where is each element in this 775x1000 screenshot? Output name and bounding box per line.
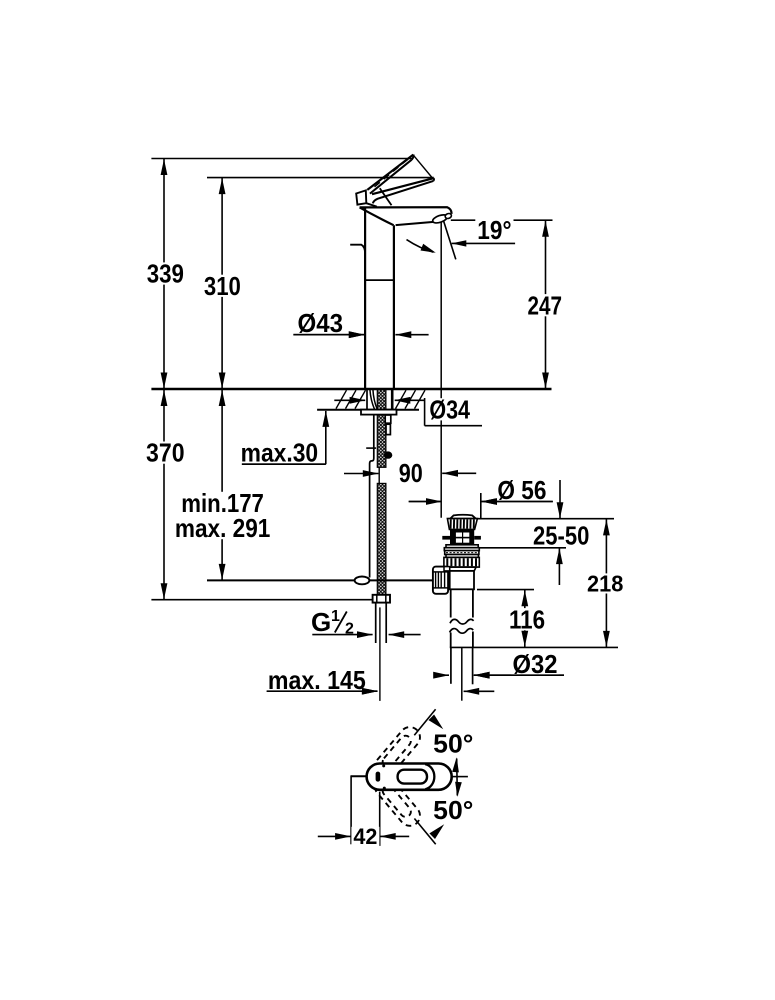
svg-text:50°: 50°	[433, 795, 473, 825]
svg-text:339: 339	[147, 259, 184, 289]
svg-text:90: 90	[399, 458, 423, 488]
svg-text:max. 291: max. 291	[175, 513, 271, 543]
svg-text:116: 116	[509, 604, 545, 634]
svg-text:310: 310	[204, 271, 241, 301]
svg-text:G: G	[311, 607, 331, 637]
svg-text:25-50: 25-50	[533, 520, 589, 550]
svg-text:247: 247	[528, 290, 563, 320]
svg-text:19°: 19°	[477, 215, 511, 245]
svg-text:50°: 50°	[433, 729, 473, 759]
svg-text:218: 218	[587, 570, 623, 596]
svg-text:42: 42	[353, 824, 377, 849]
svg-text:Ø43: Ø43	[298, 308, 344, 338]
svg-text:Ø34: Ø34	[429, 394, 470, 424]
svg-text:370: 370	[146, 438, 185, 468]
svg-text:1: 1	[331, 608, 340, 625]
svg-text:max.30: max.30	[241, 438, 319, 468]
svg-text:Ø 56: Ø 56	[497, 475, 546, 505]
svg-text:2: 2	[345, 621, 354, 638]
